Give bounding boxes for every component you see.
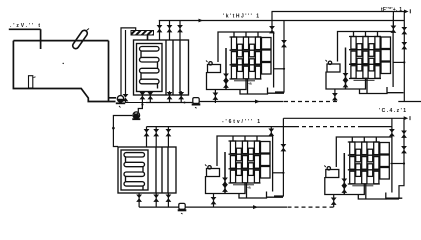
- svg-text:'k'tHJ''' 1: 'k'tHJ''' 1: [223, 14, 259, 20]
- svg-text:tF''*'+. 1: tF''*'+. 1: [381, 7, 402, 13]
- svg-text:-'6tv/''' 1: -'6tv/''' 1: [222, 119, 260, 125]
